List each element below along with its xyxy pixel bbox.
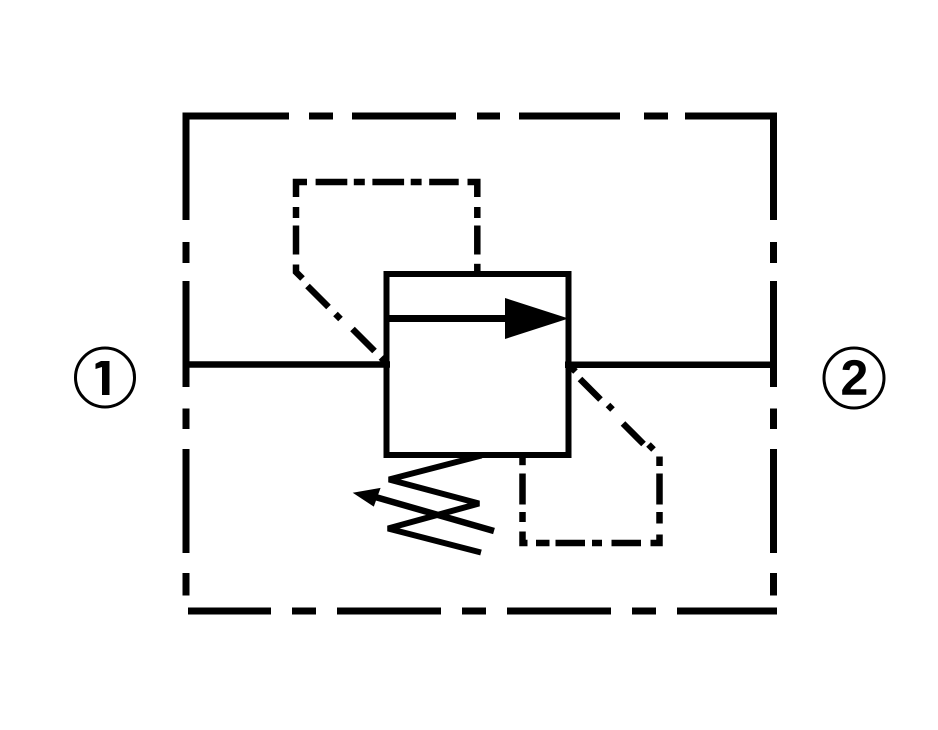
spring (adjustable) below valve	[388, 456, 482, 553]
adjustment arrow through spring: shaft	[376, 497, 494, 531]
pilot upper loop: left vertical	[296, 207, 303, 279]
cartridge envelope (outer dash-dot boundary) top edge	[183, 113, 777, 120]
valve body U1 (square envelope)	[387, 274, 569, 455]
pilot upper loop: right vertical	[474, 207, 481, 272]
wire: port 1 line	[183, 361, 390, 368]
pilot lower loop: right vertical	[651, 457, 660, 544]
cartridge envelope right edge	[770, 113, 777, 596]
cartridge envelope left edge	[183, 113, 190, 596]
cartridge envelope bottom edge	[188, 608, 777, 615]
flow arrow inside valve	[389, 315, 525, 322]
pilot line (dash-dot) lower loop: diagonal from port 2 junction	[570, 366, 654, 450]
port label circle 2	[824, 348, 884, 408]
adjustment arrow head	[353, 488, 381, 507]
port number 1	[96, 361, 110, 395]
pilot lower loop: left vertical to valve bottom	[519, 457, 526, 522]
port number 2	[842, 360, 866, 395]
port label circle 1	[76, 348, 135, 407]
wire: port 2 line	[565, 361, 777, 368]
pilot upper loop: diagonal to port 1 junction	[308, 286, 386, 362]
pilot lower loop: bottom edge	[523, 532, 642, 544]
pilot line (dash-dot) upper loop: top edge	[296, 182, 477, 197]
